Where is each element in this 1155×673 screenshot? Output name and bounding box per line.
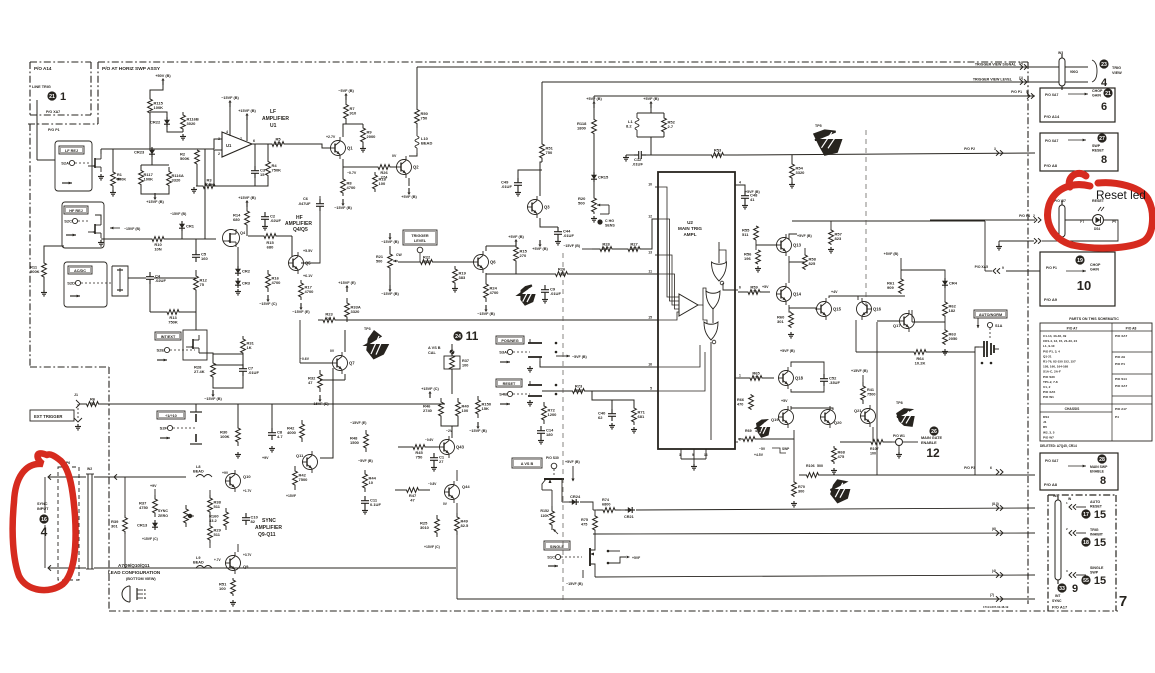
svg-text:P/O P4: P/O P4	[1019, 214, 1030, 218]
arrow swp reset inner	[1068, 139, 1086, 142]
resistor R64 10.2K	[903, 350, 937, 366]
wire q21 to r107	[872, 427, 874, 442]
svg-text:182: 182	[949, 308, 956, 313]
svg-text:Q4/Q5: Q4/Q5	[293, 227, 308, 233]
switch frame LF REJ	[55, 141, 92, 191]
wire y320 left	[0, 0, 1, 1]
wire r27 to pin12	[648, 219, 658, 249]
wire p4 second lead	[996, 238, 1058, 250]
svg-text:8: 8	[1101, 154, 1107, 166]
label P/O P1 chop	[1011, 90, 1022, 94]
svg-text:.01UF: .01UF	[248, 370, 259, 375]
wire cr4 r62	[944, 288, 946, 329]
capacitor C14 180	[537, 426, 554, 438]
diode CR1	[179, 221, 195, 231]
big 15 auto reset	[1094, 509, 1106, 521]
P/O A17 box dashed	[1048, 495, 1116, 611]
parts table col headers	[1067, 327, 1137, 331]
switch box RESET	[496, 379, 522, 387]
svg-text:21: 21	[49, 94, 55, 100]
bubble 19 chop gain	[1075, 255, 1084, 264]
svg-text:−15VF (B): −15VF (B)	[204, 397, 222, 401]
big 15 single swp	[1094, 575, 1106, 587]
U2 pin 12	[648, 215, 658, 220]
resistor R52 2.7	[662, 113, 676, 137]
connector P/O W1	[893, 434, 905, 452]
svg-text:2.7: 2.7	[668, 124, 674, 129]
svg-text:R75: R75	[581, 518, 588, 522]
switch box AC DC	[68, 266, 92, 274]
svg-text:J1: J1	[1043, 420, 1047, 424]
wire r40 to q43	[451, 426, 453, 438]
switch frame AC DC	[64, 262, 107, 307]
svg-text:−5VF (B): −5VF (B)	[572, 355, 587, 359]
power -15VF (B) u1	[221, 96, 239, 107]
resistor R18 100	[373, 172, 387, 192]
resistor R68 475	[832, 446, 846, 464]
svg-text:ZERO: ZERO	[158, 514, 168, 518]
svg-text:+3.7V: +3.7V	[243, 553, 252, 557]
wire +4V rail	[829, 296, 905, 300]
wire input to amp	[101, 148, 214, 150]
svg-text:28.7: 28.7	[630, 246, 639, 251]
resistor R33A 3320	[345, 298, 361, 322]
resistor R38 511	[208, 495, 222, 515]
switch S2A	[61, 160, 90, 165]
label TRIG VIEW	[1112, 66, 1121, 70]
wire q7 em3	[320, 379, 345, 381]
wire r39 taps	[124, 477, 126, 515]
svg-text:100K: 100K	[144, 177, 154, 182]
svg-text:SWP: SWP	[782, 447, 790, 451]
label INT SYNC	[1055, 594, 1061, 598]
svg-text:511: 511	[214, 504, 221, 509]
svg-text:+5VF (B): +5VF (B)	[884, 252, 899, 256]
svg-text:6: 6	[739, 286, 741, 290]
resistor R118 1800	[577, 108, 596, 145]
label LF AMPLIFIER U1	[270, 109, 276, 115]
wire q1 to q2	[343, 166, 372, 168]
svg-text:R5: R5	[1043, 425, 1047, 429]
bubble 33 int sync	[1057, 583, 1066, 592]
label SYNC AMPLIFIER2	[255, 525, 282, 531]
wire sync input vertical	[44, 480, 46, 568]
svg-text:P/O P2: P/O P2	[964, 147, 975, 151]
transistor Q4 fet	[223, 229, 246, 247]
arrow trigger view level	[1019, 76, 1027, 85]
wire R11 top	[44, 246, 64, 250]
svg-text:(4): (4)	[992, 569, 996, 573]
label P/O A14 in box	[1044, 114, 1060, 119]
svg-text:P/O A8: P/O A8	[1044, 482, 1058, 487]
U2 comparator triangle	[679, 294, 698, 316]
capacitor C8 4.7	[268, 428, 283, 440]
label SWP RESET	[1092, 144, 1101, 148]
svg-text:500K: 500K	[30, 269, 40, 274]
svg-text:16: 16	[41, 517, 47, 523]
wire C4 to R12	[154, 277, 196, 279]
svg-text:R41: R41	[867, 388, 874, 392]
U2 pin 11	[648, 270, 658, 275]
svg-text:Q7: Q7	[349, 361, 355, 366]
svg-text:825: 825	[809, 261, 816, 266]
bubble 21 line trig	[47, 91, 56, 100]
resistor R150 15K	[476, 396, 492, 418]
svg-text:INT: INT	[1055, 594, 1061, 598]
wire pin4 c48	[735, 185, 745, 191]
resistor R62 182	[943, 301, 957, 317]
svg-text:300: 300	[798, 490, 804, 494]
svg-text:P/O AT HORIZ SWP ASSY: P/O AT HORIZ SWP ASSY	[102, 66, 161, 72]
svg-text:+50V (B): +50V (B)	[155, 74, 171, 78]
svg-text:P/O A7: P/O A7	[1067, 327, 1078, 331]
svg-text:Q20: Q20	[834, 420, 842, 425]
svg-text:+15VF (B): +15VF (B)	[238, 109, 256, 113]
svg-text:U1: U1	[226, 143, 232, 148]
arrow sync top	[45, 474, 86, 480]
label 0V q2	[392, 154, 397, 158]
arrow trigger view signal	[1019, 61, 1027, 70]
svg-text:C1-14, 43-46, 49: C1-14, 43-46, 49	[1043, 334, 1066, 338]
bubble 21 chop	[1103, 88, 1112, 97]
wire r13 right	[195, 305, 197, 312]
svg-text:15: 15	[1094, 509, 1106, 521]
capacitor C12 .01UF	[632, 151, 646, 167]
potentiometer R21 500	[376, 246, 398, 276]
svg-text:+.7V: +.7V	[214, 558, 222, 562]
resistor R116B 3020	[181, 112, 199, 132]
switch S2C	[64, 218, 90, 223]
wire chop gain bus	[594, 95, 1035, 97]
label HF AMPLIFIER 3	[293, 227, 308, 233]
svg-text:19: 19	[1077, 258, 1083, 264]
svg-text:Q15: Q15	[833, 307, 842, 312]
resistor R41 7500	[861, 382, 876, 404]
svg-text:475: 475	[753, 375, 760, 380]
svg-text:14: 14	[704, 453, 708, 457]
svg-text:RESET: RESET	[503, 382, 516, 386]
svg-text:INHIBIT: INHIBIT	[1090, 533, 1104, 537]
resistor R40 100	[456, 398, 470, 420]
ground C14	[538, 438, 544, 444]
svg-text:Q16: Q16	[873, 307, 882, 312]
fet switch Q45	[542, 479, 564, 502]
svg-text:R66: R66	[737, 398, 744, 402]
svg-text:+15VF (C): +15VF (C)	[424, 545, 440, 549]
svg-text:TP3: TP3	[364, 327, 371, 331]
U2 input bus lines	[658, 187, 679, 320]
svg-text:P/O A14: P/O A14	[34, 66, 52, 71]
power +5VF bracket	[607, 550, 641, 565]
U2 pin 16	[648, 363, 658, 368]
svg-text:CR21: CR21	[624, 515, 634, 519]
svg-text:CR22: CR22	[150, 120, 161, 125]
switch S2D arrow	[70, 295, 80, 298]
resistor R23 27	[318, 312, 340, 323]
wire q6 out right	[486, 273, 516, 275]
diode CR21	[624, 507, 635, 519]
svg-text:CR2: CR2	[242, 269, 251, 274]
svg-text:301: 301	[777, 319, 784, 324]
resistor R37b 4750	[139, 495, 157, 517]
wire ext trig bus vert	[299, 320, 301, 363]
ground R63	[942, 349, 948, 355]
svg-text:(8.3): (8.3)	[992, 502, 999, 506]
svg-text:−5V: −5V	[759, 447, 766, 451]
svg-text:6: 6	[990, 466, 992, 470]
switch box AUTO NORM	[974, 310, 1007, 318]
diode CR2	[235, 266, 251, 276]
wire q17 base	[877, 320, 899, 322]
svg-text:TRIGGER VIEW SIGNAL: TRIGGER VIEW SIGNAL	[975, 63, 1017, 67]
svg-text:Q5: Q5	[305, 261, 311, 266]
resistor R27 28.7	[620, 242, 648, 252]
svg-text:9: 9	[1072, 583, 1078, 595]
board boundary left step	[28, 62, 98, 124]
U2 bottom pins	[679, 449, 708, 470]
svg-text:6: 6	[1101, 101, 1107, 113]
svg-text:4750: 4750	[139, 505, 149, 510]
svg-text:909: 909	[887, 285, 894, 290]
label TRIG INHIBIT2	[1090, 533, 1104, 537]
ground q1 fet	[98, 174, 104, 180]
power +15VF (B) r117	[146, 193, 164, 204]
bubble 23 trig view	[1099, 59, 1108, 68]
svg-text:R1-76, 82-150 152, 157: R1-76, 82-150 152, 157	[1043, 360, 1076, 364]
svg-text:P/O A8: P/O A8	[1126, 327, 1137, 331]
wire x333 vertical rail	[0, 0, 1, 1]
ground R71	[631, 427, 637, 433]
wire q13 emitter chain	[789, 248, 805, 283]
svg-text:7: 7	[240, 137, 242, 141]
ground R30	[235, 452, 241, 458]
svg-text:−0.7V: −0.7V	[347, 171, 357, 175]
power +5VF (B) q2	[401, 188, 417, 199]
ground S3A	[527, 366, 533, 372]
wire q19 q20 base bus	[760, 430, 794, 475]
svg-text:75: 75	[200, 282, 205, 287]
arrow p/o p3	[990, 466, 1003, 475]
wire q14 emitter	[789, 305, 791, 312]
wire q7 coll	[344, 330, 346, 352]
wire c3 bottom	[254, 178, 256, 186]
label P/O XA7 under A14	[46, 110, 60, 114]
control box TRIGGER LEVEL	[403, 230, 437, 245]
diode CR24	[569, 494, 581, 505]
wire reset to r73	[542, 390, 565, 392]
bubble 27 swp reset	[1097, 133, 1106, 142]
resistor R75 475	[581, 515, 597, 531]
svg-text:U1, 2: U1, 2	[1043, 385, 1051, 389]
svg-text:Q17: Q17	[893, 323, 901, 328]
svg-text:Q18: Q18	[795, 376, 804, 381]
svg-text:C6: C6	[303, 197, 308, 201]
svg-text:S2D: S2D	[67, 281, 75, 286]
svg-text:27: 27	[1099, 136, 1105, 142]
svg-text:47: 47	[410, 497, 415, 502]
wire q6 collector2	[485, 246, 487, 251]
svg-text:100K: 100K	[154, 105, 164, 110]
svg-text:TP5: TP5	[815, 124, 822, 128]
resistor R51 750	[540, 140, 554, 162]
svg-text:MAIN GATE: MAIN GATE	[921, 436, 942, 440]
wire fet q2	[95, 215, 101, 220]
label +2.7V q1	[326, 135, 336, 139]
svg-text:R37: R37	[462, 359, 469, 363]
svg-text:12: 12	[926, 446, 940, 460]
svg-text:−0.6V: −0.6V	[425, 438, 434, 442]
wire r50 top to bus	[416, 67, 418, 105]
label AMPL	[683, 232, 696, 237]
svg-text:62: 62	[598, 415, 603, 420]
svg-text:15: 15	[1094, 575, 1106, 587]
svg-text:+2.7V: +2.7V	[326, 135, 336, 139]
svg-text:TRIG: TRIG	[1112, 66, 1121, 70]
svg-text:475: 475	[838, 454, 845, 459]
trig view bracket	[1092, 60, 1097, 82]
bubble 17	[1081, 509, 1090, 518]
label AUTO RESET	[1090, 500, 1100, 504]
test point TP8 scribble	[896, 401, 914, 426]
transistor Q11	[296, 451, 318, 473]
svg-text:SENS: SENS	[605, 224, 615, 228]
label ENABLE	[921, 441, 937, 445]
switch S1C	[547, 554, 582, 559]
ground C9	[542, 297, 548, 303]
ground C44	[555, 239, 561, 245]
resistor R117 100K	[139, 165, 154, 190]
svg-text:AMPL: AMPL	[683, 232, 696, 237]
svg-text:P/O A17: P/O A17	[1115, 407, 1127, 411]
wire int ext out	[199, 353, 213, 358]
power -15VF r27	[563, 244, 592, 249]
resistor R48 1500	[350, 430, 368, 452]
wire c8 top	[271, 404, 273, 428]
svg-text:15K: 15K	[482, 406, 489, 411]
capacitor C3 15	[251, 166, 266, 178]
svg-text:470: 470	[751, 289, 758, 294]
wire c12 left	[626, 154, 634, 156]
svg-text:+15VF (C): +15VF (C)	[421, 387, 439, 391]
svg-text:LEVEL: LEVEL	[414, 239, 427, 243]
label +6.1V	[303, 274, 313, 278]
svg-text:Q1: Q1	[347, 146, 353, 151]
svg-text:P4: P4	[1115, 415, 1119, 419]
svg-text:825: 825	[275, 141, 282, 146]
label IN a17	[1068, 497, 1072, 501]
power -15VF (E) r32	[311, 395, 329, 406]
resistor R65 475	[738, 371, 774, 381]
resistor R7 910	[344, 99, 357, 124]
switch S3A contacts	[528, 339, 557, 361]
resistor R4 750K	[266, 155, 282, 182]
label SINGLE SWP	[1090, 566, 1104, 570]
P/O A14 line-trig box (dashed)	[30, 62, 91, 115]
svg-text:P/O A9: P/O A9	[1044, 297, 1058, 302]
U2 or-gate 3	[704, 322, 718, 344]
big 7 a17	[1119, 593, 1127, 610]
svg-text:23: 23	[1101, 62, 1107, 68]
svg-text:470: 470	[737, 403, 743, 407]
svg-text:158, 160, 164-168: 158, 160, 164-168	[1043, 365, 1068, 369]
connector W5 pill	[1053, 494, 1061, 584]
arrow main swp inner	[1068, 465, 1086, 468]
resistor R55 511	[742, 226, 758, 240]
svg-text:.01UF: .01UF	[501, 184, 512, 189]
power +15VF (B) r14	[238, 196, 256, 207]
switch P/O S30	[546, 456, 559, 476]
svg-text:−2V: −2V	[446, 429, 453, 433]
svg-text:S2E: S2E	[156, 348, 164, 353]
resistor R28b 1M	[592, 242, 620, 252]
ground C48	[742, 203, 748, 209]
big 6 chop	[1101, 101, 1107, 113]
wire auto reset bus y508	[593, 508, 1035, 510]
wire reset led long bus	[792, 221, 985, 271]
svg-text:P/O A14: P/O A14	[1044, 114, 1060, 119]
power -5VF q11	[358, 459, 373, 463]
test point TP5 scribble	[814, 124, 841, 155]
svg-text:100: 100	[558, 271, 565, 276]
svg-text:91: 91	[90, 401, 95, 406]
wire r30 top	[237, 404, 239, 424]
wire R52 pwr	[650, 107, 652, 113]
ground R1	[110, 190, 116, 196]
resistor R8 4700	[341, 176, 357, 196]
svg-text:−5VF (B): −5VF (B)	[338, 89, 354, 93]
svg-text:823: 823	[835, 236, 842, 241]
board boundary lower-left step	[30, 367, 109, 611]
svg-text:.02UF: .02UF	[155, 278, 166, 283]
svg-text:−15VF (B): −15VF (B)	[334, 206, 352, 210]
wire L1 R52 top	[637, 112, 664, 114]
svg-text:41: 41	[750, 197, 755, 202]
wire fb loop	[214, 150, 268, 186]
label -15VF arrow left	[110, 227, 140, 231]
svg-text:16: 16	[648, 363, 652, 367]
svg-text:TP8: TP8	[896, 401, 903, 405]
svg-text:160: 160	[201, 256, 208, 261]
wire q6 to r26	[516, 273, 548, 275]
label +5V q14	[762, 285, 769, 289]
label -2V	[446, 429, 453, 433]
diode CR13	[137, 520, 158, 530]
svg-text:−15VF (E): −15VF (E)	[350, 421, 367, 425]
bubble 26 main gate	[929, 426, 938, 435]
U2 pin5 wire	[658, 352, 705, 391]
svg-text:2320: 2320	[422, 259, 432, 264]
power +5VF s30	[565, 460, 580, 482]
svg-text:+4.5V: +4.5V	[754, 453, 764, 457]
svg-text:3320: 3320	[796, 170, 806, 175]
parts table right column	[1112, 334, 1152, 419]
parts table title	[1069, 317, 1119, 321]
svg-text:+15VF (B): +15VF (B)	[146, 200, 164, 204]
svg-text:473: 473	[755, 429, 761, 433]
svg-text:L1, 9-10: L1, 9-10	[1043, 344, 1055, 348]
label SWP RESET2	[1092, 149, 1105, 153]
label AUTO RESET2	[1090, 505, 1103, 509]
svg-text:750K: 750K	[272, 168, 282, 173]
svg-text:P/O XA5: P/O XA5	[1043, 390, 1055, 394]
svg-text:26: 26	[931, 429, 937, 435]
svg-text:+1.7V: +1.7V	[243, 489, 252, 493]
switch S2F	[160, 425, 196, 430]
svg-text:CAL: CAL	[428, 351, 436, 355]
wire s2e top	[195, 312, 197, 330]
parts table chassis list	[1043, 415, 1055, 439]
inductor L9 bead	[193, 556, 212, 568]
